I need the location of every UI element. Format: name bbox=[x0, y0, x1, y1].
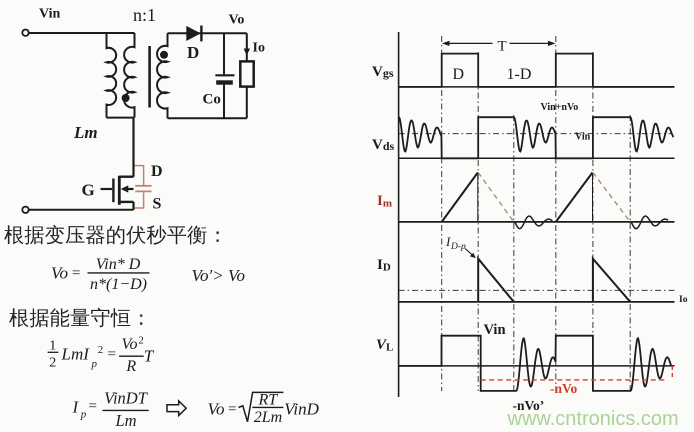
VL trace bbox=[399, 336, 671, 391]
svg-text:1-D: 1-D bbox=[507, 66, 532, 83]
VL zero line bbox=[399, 365, 675, 367]
formula frac bar bbox=[88, 272, 150, 274]
svg-text:p: p bbox=[91, 358, 98, 370]
primary phase dot bbox=[122, 94, 130, 102]
Vgs trace bbox=[399, 54, 675, 87]
period T dimension arrows bbox=[444, 42, 493, 44]
svg-text:2: 2 bbox=[98, 344, 104, 356]
svg-text:D: D bbox=[453, 66, 465, 83]
inductor Lm bbox=[107, 33, 117, 118]
secondary phase dot bbox=[160, 51, 168, 59]
dash-dot vertical t1 bbox=[477, 52, 479, 391]
svg-text:Co: Co bbox=[203, 92, 221, 108]
svg-text:Vo′> Vo: Vo′> Vo bbox=[192, 266, 245, 285]
load resistor bbox=[246, 33, 248, 61]
svg-text:D: D bbox=[151, 163, 163, 180]
Io current arrow bbox=[246, 42, 248, 50]
svg-text:=: = bbox=[228, 401, 236, 417]
Im decay dashed 1 bbox=[478, 173, 514, 222]
svg-text:1: 1 bbox=[49, 339, 56, 354]
waveform axis bbox=[398, 32, 400, 397]
heading: volt-second balance bbox=[4, 225, 23, 244]
svg-text:Vo: Vo bbox=[122, 336, 138, 353]
wire bottom rail bbox=[29, 209, 134, 211]
ID baseline bbox=[399, 301, 675, 303]
wire Lm bottom junction bbox=[107, 117, 134, 119]
svg-text:=: = bbox=[89, 399, 97, 415]
transformer secondary winding bbox=[157, 33, 167, 118]
wire secondary bottom bbox=[168, 117, 247, 119]
wire secondary top bbox=[168, 32, 247, 34]
mosfet Q1 drain stub bbox=[119, 175, 133, 177]
ID pulse 2 bbox=[593, 259, 630, 302]
mosfet Q1 gate lead bbox=[101, 188, 113, 190]
mosfet Q1 body stub with arrow bbox=[125, 188, 134, 190]
input terminal (Vin+) bbox=[22, 30, 28, 36]
Im ramp 2 bbox=[556, 173, 593, 222]
svg-text:Lm: Lm bbox=[73, 123, 98, 142]
Vgs baseline bbox=[399, 86, 675, 88]
Im baseline bbox=[399, 221, 675, 223]
mosfet Q1 source lead bbox=[132, 202, 134, 210]
Im oscillation 2 bbox=[631, 216, 668, 229]
Im ramp 1 bbox=[442, 173, 478, 222]
svg-text:R: R bbox=[125, 358, 136, 375]
mosfet Q1 channel bar bbox=[118, 176, 121, 205]
svg-text:Vds: Vds bbox=[372, 137, 395, 153]
ID Io level dash-dot bbox=[399, 289, 675, 291]
svg-text:S: S bbox=[153, 196, 162, 213]
dash-dot vertical t5 bbox=[629, 115, 631, 391]
mosfet Q1 source stub bbox=[119, 201, 133, 203]
ID pulse 1 bbox=[478, 259, 514, 302]
input terminal (Vin-) bbox=[22, 207, 28, 213]
svg-text:Vgs: Vgs bbox=[372, 64, 394, 80]
svg-text:Vin+nVo: Vin+nVo bbox=[541, 102, 579, 113]
svg-text:Vo: Vo bbox=[229, 13, 245, 28]
svg-text:Vin: Vin bbox=[39, 7, 60, 22]
svg-text:VinD: VinD bbox=[284, 399, 319, 418]
implies arrow bbox=[167, 401, 186, 416]
dash-dot vertical t3 bbox=[555, 36, 557, 391]
svg-text:Vin: Vin bbox=[575, 132, 591, 143]
svg-text:Lm: Lm bbox=[114, 411, 136, 430]
svg-text:=: = bbox=[72, 266, 80, 282]
svg-text:Vin: Vin bbox=[484, 322, 506, 338]
wire primary to drain bbox=[132, 118, 134, 177]
svg-text:T: T bbox=[144, 347, 155, 366]
mosfet Q1 gate bar bbox=[112, 179, 114, 203]
svg-text:n*(1−D): n*(1−D) bbox=[90, 276, 147, 293]
heading: energy conservation bbox=[9, 308, 28, 327]
svg-text:Vo: Vo bbox=[208, 399, 225, 418]
diode D bbox=[186, 26, 200, 41]
svg-text:n:1: n:1 bbox=[133, 5, 156, 25]
capacitor Co bbox=[223, 33, 225, 74]
svg-text:G: G bbox=[82, 181, 95, 200]
svg-text:D: D bbox=[187, 43, 199, 62]
svg-text:RT: RT bbox=[257, 392, 278, 409]
svg-text:T: T bbox=[498, 39, 507, 55]
radical sign bbox=[239, 392, 284, 421]
Vds baseline bbox=[399, 157, 675, 159]
svg-text:2Lm: 2Lm bbox=[254, 409, 282, 426]
Vds trace bbox=[399, 117, 674, 158]
svg-text:Io: Io bbox=[679, 295, 688, 305]
ID-p pointer arrow bbox=[465, 249, 473, 256]
svg-text:=: = bbox=[108, 347, 116, 363]
-nVo red dashed level bbox=[481, 379, 667, 381]
transformer primary winding bbox=[124, 33, 134, 118]
svg-text:Vo: Vo bbox=[51, 264, 68, 283]
Vds Vin level dash-dot bbox=[399, 133, 671, 135]
dash-dot vertical t4 bbox=[592, 52, 594, 391]
dash-dot vertical t0 bbox=[441, 36, 443, 391]
dash-dot vertical t2 bbox=[513, 115, 515, 391]
Im oscillation 1 bbox=[515, 216, 553, 229]
svg-text:D-p: D-p bbox=[450, 242, 466, 252]
svg-text:-nVo: -nVo bbox=[550, 381, 578, 396]
svg-text:p: p bbox=[80, 409, 87, 421]
wire top rail bbox=[29, 32, 135, 34]
svg-text:Io: Io bbox=[253, 41, 265, 56]
svg-text:LmI: LmI bbox=[61, 345, 91, 364]
svg-text:VinDT: VinDT bbox=[104, 388, 149, 407]
parasitic capacitor Cds (red) bbox=[135, 166, 144, 185]
svg-text:www.cntronics.com: www.cntronics.com bbox=[507, 408, 679, 430]
transformer core bbox=[148, 46, 151, 108]
Im decay dashed 2 bbox=[593, 173, 630, 222]
svg-text:2: 2 bbox=[139, 336, 144, 347]
svg-text:2: 2 bbox=[49, 356, 56, 371]
svg-text:Vin* D: Vin* D bbox=[96, 256, 141, 273]
